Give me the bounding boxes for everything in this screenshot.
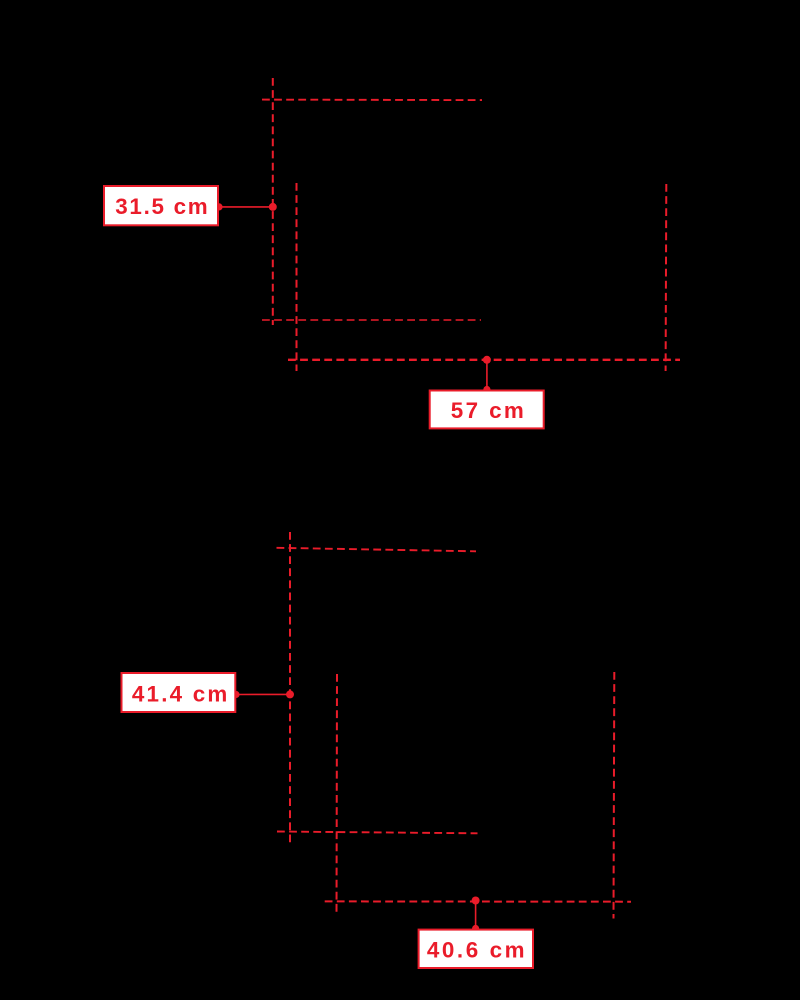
line G top-back horizontal (slanted): [277, 548, 477, 552]
line L bottom-front horizontal: [325, 900, 631, 902]
label 31.5 cm box: [104, 186, 218, 225]
label 41.4 cm box: [122, 673, 236, 712]
line C left-front vertical: [296, 183, 298, 371]
line F bottom-front horizontal: [288, 359, 680, 361]
svg-text:40.6 cm: 40.6 cm: [427, 938, 527, 963]
line I left-front vertical: [336, 674, 339, 916]
label 40.6 cm box: [419, 930, 533, 968]
label 31.5 cm leader: [219, 206, 273, 208]
label 41.4 cm leader: [236, 693, 290, 695]
line D right-front vertical: [665, 184, 668, 371]
line A top-back horizontal: [262, 99, 482, 102]
svg-text:41.4 cm: 41.4 cm: [132, 682, 230, 707]
label 57 cm box: [430, 391, 544, 429]
line H left-back vertical: [289, 532, 291, 843]
label 40.6 cm leader: [475, 901, 477, 929]
line J right-front vertical: [613, 672, 616, 919]
svg-text:57 cm: 57 cm: [451, 398, 527, 423]
label 57 cm leader: [486, 360, 488, 390]
line K bottom-back horizontal: [277, 832, 478, 834]
svg-text:31.5 cm: 31.5 cm: [115, 194, 209, 219]
line B left-back vertical: [272, 78, 274, 325]
line E bottom-back horizontal: [262, 319, 481, 321]
